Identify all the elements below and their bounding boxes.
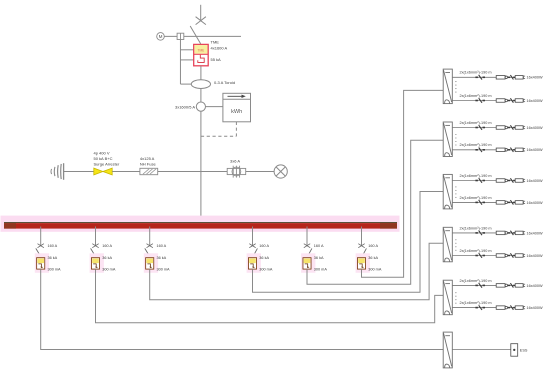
feeder 5 breaker contact X (304, 244, 310, 248)
feeder 4 breaker contact X (249, 244, 255, 248)
DB2 output B connector 2 (508, 149, 515, 151)
svg-text:36 kA: 36 kA (48, 256, 58, 260)
wire CT to busbar (200, 111, 202, 222)
feeder 5 RCBO box (303, 258, 311, 269)
DB4 output B luminaire group 2 (515, 254, 523, 258)
distribution panel DB4 (443, 227, 452, 261)
breaker blade (190, 26, 201, 44)
svg-text:300 mA: 300 mA (259, 267, 273, 271)
feeder 4 RCBO pink glow (247, 253, 261, 272)
DB4 output B wire (452, 255, 524, 257)
svg-text:16x400W: 16x400W (527, 148, 543, 152)
svg-text:36 kA: 36 kA (368, 256, 378, 260)
feeder 1 RCBO pink glow (35, 253, 49, 272)
svg-text:36 kA: 36 kA (259, 256, 269, 260)
feeder 2 drop wire (95, 227, 97, 246)
svg-text:2x(1x6mm²)-190 m: 2x(1x6mm²)-190 m (460, 279, 492, 283)
distribution panel DB3 (443, 174, 452, 209)
feeder 3 RCBO box (146, 258, 154, 269)
svg-text:NH Fuse: NH Fuse (140, 162, 157, 167)
main breaker TME 4x1600A (194, 44, 209, 65)
DB1 output B connector 2 (508, 100, 515, 102)
feeder 6 breaker blade (362, 248, 367, 257)
feeder 4 breaker blade (253, 248, 258, 257)
main busbar (4, 223, 397, 229)
svg-text:160 A: 160 A (368, 244, 378, 248)
DB3 output A wire (452, 180, 524, 182)
svg-text:16x400W: 16x400W (527, 254, 543, 258)
feeder 1 drop wire (40, 227, 42, 246)
feeder 1 breaker blade (36, 248, 41, 257)
feeder 1 breaker contact X (38, 244, 44, 248)
svg-text:TME: TME (198, 48, 205, 52)
svg-text:16x400W: 16x400W (527, 99, 543, 103)
svg-text:16x400W: 16x400W (527, 284, 543, 288)
DB4 output A connector 2 (508, 232, 515, 234)
svg-text:4p 400 V: 4p 400 V (94, 151, 110, 156)
DB4 ellipsis dots (455, 239, 456, 251)
feeder 2 RCBO box (91, 258, 99, 269)
tap wire to breaker top cell (180, 49, 193, 51)
DB2 ellipsis dots (455, 134, 456, 146)
tap wire to breaker trip cell (180, 59, 193, 61)
feeder 2 breaker blade (91, 248, 96, 257)
feeder 5 RCBO pink glow (301, 253, 315, 272)
svg-text:4x1600 A: 4x1600 A (211, 45, 228, 50)
svg-text:4x125 A: 4x125 A (140, 156, 155, 161)
DB1 output A wire (452, 76, 524, 78)
svg-text:M: M (159, 34, 163, 39)
svg-text:16x400W: 16x400W (527, 126, 543, 130)
svg-text:2x(1x6mm²)-190 m: 2x(1x6mm²)-190 m (460, 301, 492, 305)
feeder 6 RCBO box (357, 258, 365, 269)
DB5 output A connector 2 (508, 285, 515, 287)
CT 3x1600/5A (196, 102, 205, 111)
earth electrode symbol (51, 163, 64, 180)
toroid 0-3A (191, 80, 210, 89)
svg-text:2x(1x6mm²)-190 m: 2x(1x6mm²)-190 m (460, 226, 492, 230)
wire feeder 6 to panel DB1 (362, 90, 444, 277)
DB3 output B connector 2 (508, 202, 515, 204)
DB1 output A connector 2 (508, 77, 515, 79)
svg-text:300 mA: 300 mA (48, 267, 62, 271)
DB1 output B luminaire group 1 (496, 99, 505, 103)
NH fuse F2 (140, 168, 158, 174)
bypass wire to toroid (180, 83, 191, 85)
svg-text:0-3 A Toroid: 0-3 A Toroid (214, 80, 235, 85)
distribution panel DB6 (443, 332, 452, 368)
DB5 output A connector 1 (475, 285, 485, 287)
wire feeder 5 to panel DB2 (307, 140, 443, 284)
wire earth to surge arrester (64, 171, 94, 173)
DB1 output B wire (452, 100, 524, 102)
bypass wire down from coupling (179, 40, 181, 85)
feeder 2 RCBO pink glow (90, 253, 104, 272)
feeder 6 RCBO pink glow (356, 253, 370, 272)
aux breaker 3x6A (227, 166, 246, 178)
DB4 output B luminaire group 1 (496, 254, 505, 258)
wire feeder 2 to panel DB5 (96, 269, 444, 323)
dashed metering wire (235, 122, 237, 137)
distribution panel DB5 (443, 280, 452, 315)
svg-text:16x400W: 16x400W (527, 201, 543, 205)
svg-text:36 kA: 36 kA (102, 256, 112, 260)
wire feeder 3 to panel DB4 (150, 243, 444, 299)
wire feeder 4 to panel DB3 (253, 192, 444, 293)
DB2 output B luminaire group 1 (496, 148, 505, 152)
svg-text:2x(1x6mm²)-190 m: 2x(1x6mm²)-190 m (460, 249, 492, 253)
DB5 output A wire (452, 284, 524, 286)
DB3 output B wire (452, 201, 524, 203)
DB3 output A connector 1 (475, 180, 485, 182)
feeder 6 breaker contact X (358, 244, 364, 248)
DB1 output B luminaire group 2 (515, 99, 523, 103)
svg-text:16x400W: 16x400W (527, 179, 543, 183)
DB5 output B wire (452, 307, 524, 309)
DB4 output B connector 2 (508, 255, 515, 257)
distribution panel DB1 (443, 69, 452, 104)
feeder 5 drop wire (306, 227, 308, 246)
svg-text:55 kA: 55 kA (211, 57, 222, 62)
DB3 output B connector 1 (475, 202, 485, 204)
busbar left cap (4, 223, 16, 229)
DB5 output B luminaire group 2 (515, 306, 523, 310)
DB3 output B luminaire group 1 (496, 201, 505, 205)
svg-text:2x(1x6mm²)-190 m: 2x(1x6mm²)-190 m (460, 71, 492, 75)
svg-text:300 mA: 300 mA (314, 267, 328, 271)
DB2 output B wire (452, 149, 524, 151)
DB4 output A wire (452, 232, 524, 234)
busbar right cap (380, 223, 397, 229)
DB4 output A luminaire group 2 (515, 231, 523, 235)
svg-text:2x(1x6mm²)-190 m: 2x(1x6mm²)-190 m (460, 121, 492, 125)
svg-text:160 A: 160 A (259, 244, 269, 248)
DB5 output B luminaire group 1 (496, 306, 505, 310)
wire DB6 to ESS (452, 349, 511, 351)
horizontal control bus (164, 35, 241, 37)
incoming supply line (200, 5, 202, 21)
svg-text:160 A: 160 A (48, 244, 58, 248)
distribution panel DB2 (443, 122, 452, 157)
DB3 ellipsis dots (455, 186, 456, 198)
DB1 output A luminaire group 1 (496, 76, 505, 80)
svg-text:Surge Arrester: Surge Arrester (94, 162, 120, 167)
svg-text:160 A: 160 A (157, 244, 167, 248)
DB4 output A luminaire group 1 (496, 231, 505, 235)
motor operator M1 (157, 33, 165, 41)
supply X symbol (196, 17, 206, 25)
feeder 3 breaker contact X (147, 244, 153, 248)
feeder 6 drop wire (361, 227, 363, 246)
feeder 3 RCBO pink glow (144, 253, 158, 272)
wire CT to kWh meter (206, 106, 223, 108)
svg-text:16x400W: 16x400W (527, 231, 543, 235)
DB4 output A connector 1 (475, 232, 485, 234)
busbar base line (4, 222, 397, 224)
DB2 output A luminaire group 1 (496, 126, 505, 130)
DB1 ellipsis dots (455, 81, 456, 93)
DB2 output A connector 1 (475, 127, 485, 129)
wire fuse to aux breaker (158, 171, 228, 173)
svg-text:160 A: 160 A (314, 244, 324, 248)
feeder 3 breaker blade (145, 248, 150, 257)
surge arrester F1 (94, 168, 112, 175)
svg-text:kWh: kWh (231, 109, 242, 115)
svg-text:36 kA: 36 kA (314, 256, 324, 260)
svg-text:2x(1x6mm²)-190 m: 2x(1x6mm²)-190 m (460, 94, 492, 98)
DB5 output B connector 1 (475, 307, 485, 309)
svg-text:16x400W: 16x400W (527, 76, 543, 80)
DB5 output A luminaire group 2 (515, 284, 523, 288)
svg-text:300 mA: 300 mA (368, 267, 382, 271)
svg-text:3x1600/5 A: 3x1600/5 A (175, 105, 195, 110)
svg-text:2x(1x6mm²)-190 m: 2x(1x6mm²)-190 m (460, 143, 492, 147)
wire toroid to CT (200, 89, 202, 103)
wire aux breaker to lamp (246, 171, 274, 173)
DB5 ellipsis dots (455, 292, 456, 304)
feeder 4 drop wire (252, 227, 254, 246)
DB2 output A luminaire group 2 (515, 126, 523, 130)
DB3 output A luminaire group 2 (515, 179, 523, 183)
svg-text:2x(1x6mm²)-190 m: 2x(1x6mm²)-190 m (460, 196, 492, 200)
svg-text:3x6 A: 3x6 A (230, 159, 240, 164)
DB1 output A connector 1 (475, 77, 485, 79)
svg-text:TME: TME (211, 40, 220, 45)
busbar pink glow (1, 216, 400, 232)
DB3 output A connector 2 (508, 180, 515, 182)
wire surge arrester to fuse (112, 171, 140, 173)
feeder 3 drop wire (149, 227, 151, 246)
DB5 output A luminaire group 1 (496, 284, 505, 288)
svg-text:16x400W: 16x400W (527, 306, 543, 310)
ESS unit (511, 344, 518, 357)
feeder 5 breaker blade (307, 248, 312, 257)
svg-text:160 A: 160 A (102, 244, 112, 248)
svg-text:36 kA: 36 kA (157, 256, 167, 260)
feeder 4 RCBO box (248, 258, 256, 269)
DB2 output B luminaire group 2 (515, 148, 523, 152)
kWh meter P1 (223, 93, 251, 122)
feeder 1 RCBO box (37, 258, 45, 269)
feeder 2 breaker contact X (92, 244, 98, 248)
svg-text:2x(1x6mm²)-190 m: 2x(1x6mm²)-190 m (460, 174, 492, 178)
DB5 output B connector 2 (508, 307, 515, 309)
svg-text:300 mA: 300 mA (102, 267, 116, 271)
svg-text:300 mA: 300 mA (157, 267, 171, 271)
DB3 output B luminaire group 2 (515, 201, 523, 205)
DB3 output A luminaire group 1 (496, 179, 505, 183)
svg-text:50 kA B+C: 50 kA B+C (94, 156, 113, 161)
DB1 output B connector 1 (475, 100, 485, 102)
lamp E1 (274, 165, 287, 178)
DB4 output B connector 1 (475, 255, 485, 257)
DB1 output A luminaire group 2 (515, 76, 523, 80)
DB2 output B connector 1 (475, 149, 485, 151)
wire feeder 1 to panel DB6 (41, 269, 444, 349)
motor coupling box (177, 33, 184, 39)
DB2 output A wire (452, 127, 524, 129)
main riser wire (200, 66, 202, 80)
svg-text:ESS: ESS (520, 348, 528, 352)
DB2 output A connector 2 (508, 127, 515, 129)
